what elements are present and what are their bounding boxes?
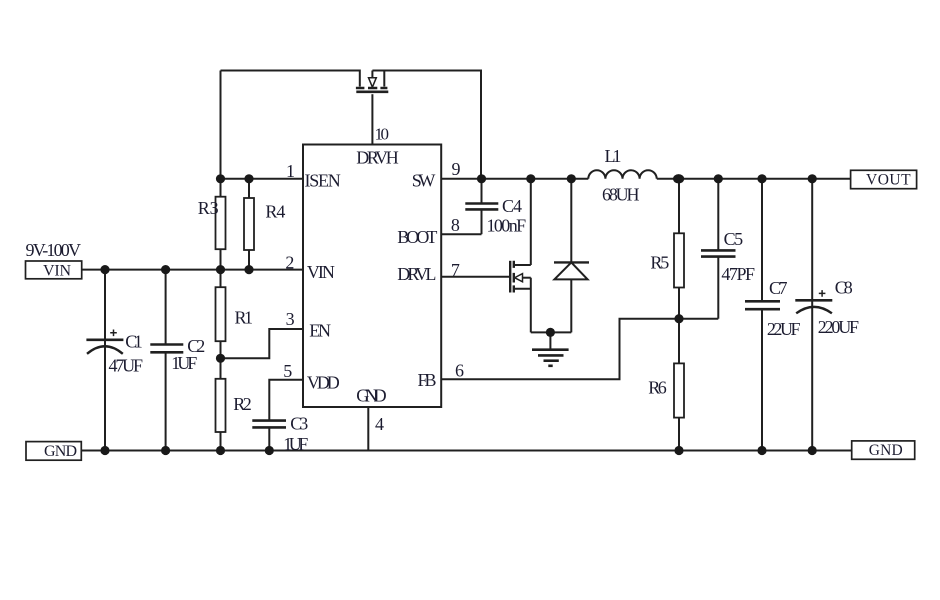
label: GND box right text (869, 442, 903, 459)
capacitor C8 electrolytic (795, 179, 832, 451)
label: R2 (233, 394, 252, 414)
svg-text:3: 3 (286, 309, 295, 329)
label: VDD (307, 372, 340, 392)
capacitor C7 (745, 179, 780, 451)
svg-text:47UF: 47UF (109, 356, 144, 376)
label: DRVH (356, 148, 399, 168)
resistor R3 (216, 179, 226, 270)
svg-text:R6: R6 (648, 377, 666, 397)
svg-text:C1: C1 (125, 332, 142, 352)
node: output rail junction dots (673, 174, 817, 183)
svg-text:1: 1 (286, 161, 295, 181)
resistor R6 (674, 319, 684, 451)
capacitor C2 (150, 270, 183, 451)
wire: GND pin 4 (367, 407, 369, 451)
wire: bottom GND rail (81, 450, 851, 452)
op-amp U1 IC body (303, 145, 441, 408)
resistor R1 (216, 270, 226, 358)
label: 9V-100V (26, 240, 82, 260)
diode D1 (554, 179, 589, 333)
label: GND box left text (44, 443, 77, 460)
VIN input box (26, 261, 82, 279)
label: R3 (198, 198, 219, 218)
svg-text:BOOT: BOOT (397, 227, 437, 247)
svg-text:47PF: 47PF (721, 264, 755, 284)
capacitor C5 (701, 179, 736, 319)
svg-text:DRVL: DRVL (397, 264, 436, 284)
svg-text:C5: C5 (724, 229, 744, 249)
label: L1 (605, 146, 622, 166)
svg-text:5: 5 (283, 361, 292, 381)
resistor R4 (244, 179, 254, 270)
label: ISEN (305, 170, 341, 190)
wire: vertical from top rail down to ISEN node (220, 71, 222, 179)
svg-text:220UF: 220UF (818, 317, 859, 337)
label: R1 (235, 308, 254, 328)
GND box right (852, 441, 915, 459)
label: C1 (125, 332, 142, 352)
svg-text:1UF: 1UF (171, 353, 197, 373)
label: GND pin (356, 385, 386, 405)
svg-text:9: 9 (452, 159, 461, 179)
GND box left (26, 442, 81, 461)
label: 47PF (721, 264, 755, 284)
svg-text:L1: L1 (605, 146, 622, 166)
wire: ISEN pin wire (221, 178, 304, 180)
label: pin 1 (286, 161, 295, 181)
label: VIN pin (307, 262, 335, 282)
svg-text:VIN: VIN (43, 262, 71, 279)
node: VIN rail junction dots (100, 265, 253, 274)
wire: top rail left from node A to Q1 drain (221, 71, 360, 87)
label: 1UF C2 (171, 353, 197, 373)
label: 68UH (602, 185, 640, 205)
wire: VDD pin route (269, 380, 303, 421)
label: EN (309, 321, 331, 341)
label: pin 7 (451, 260, 460, 280)
svg-text:7: 7 (451, 260, 460, 280)
label: pin 4 (375, 414, 384, 434)
wire: DRVL pin 7 to Q2 gate (441, 276, 510, 278)
label: C4 (502, 196, 522, 216)
wire: top rail right from Q1 source to SW node (372, 71, 481, 179)
ground (532, 332, 569, 365)
svg-text:VOUT: VOUT (866, 172, 911, 189)
capacitor C3 (252, 421, 286, 451)
label: pin 10 (375, 125, 390, 144)
svg-text:ISEN: ISEN (305, 170, 341, 190)
svg-text:R1: R1 (235, 308, 254, 328)
label: R5 (650, 253, 669, 273)
wire: BOOT pin 8 (441, 233, 481, 235)
svg-text:R4: R4 (265, 202, 285, 222)
svg-text:GND: GND (869, 442, 903, 459)
label: C3 (290, 414, 308, 434)
svg-text:DRVH: DRVH (356, 148, 399, 168)
svg-text:22UF: 22UF (767, 319, 801, 339)
label: VIN box text (43, 262, 71, 279)
transistor Q2 low-side MOSFET (510, 179, 531, 333)
svg-text:VIN: VIN (307, 262, 335, 282)
label: pin 6 (455, 360, 464, 380)
node: bottom rail junction dots (100, 446, 816, 455)
label: pin 3 (286, 309, 295, 329)
svg-text:R3: R3 (198, 198, 219, 218)
svg-text:C8: C8 (835, 278, 853, 298)
label: 220UF (818, 317, 859, 337)
VOUT box (851, 170, 917, 188)
inductor L1 (588, 170, 656, 179)
svg-text:68UH: 68UH (602, 185, 640, 205)
label: C2 (187, 336, 205, 356)
wire: VIN rail (82, 269, 303, 271)
label: FB (418, 370, 437, 390)
svg-text:100nF: 100nF (487, 215, 527, 235)
label: DRVL (397, 264, 436, 284)
svg-text:6: 6 (455, 360, 464, 380)
node: FB divider junction (674, 314, 683, 323)
wire: Q1 gate to DRVH pin 10 (371, 94, 373, 144)
svg-text:R2: R2 (233, 394, 252, 414)
label: pin 2 (285, 252, 294, 272)
svg-text:9V-100V: 9V-100V (26, 240, 82, 260)
node: ISEN junction dots (216, 174, 254, 183)
svg-text:VDD: VDD (307, 372, 340, 392)
label: 100nF (487, 215, 527, 235)
svg-text:GND: GND (44, 443, 77, 460)
label: C8 (835, 278, 853, 298)
wire: output rail to VOUT (657, 178, 851, 180)
wire: EN pin route (221, 329, 304, 358)
svg-text:EN: EN (309, 321, 331, 341)
label: pin 8 (451, 215, 460, 235)
label: 22UF (767, 319, 801, 339)
node: Q2 source ground junction (546, 328, 555, 337)
resistor R2 (216, 358, 226, 451)
svg-text:2: 2 (285, 252, 294, 272)
capacitor C4 (465, 179, 498, 234)
node: R1/R2 EN junction (216, 354, 225, 363)
svg-text:GND: GND (356, 385, 386, 405)
label: pin 9 (452, 159, 461, 179)
label: C5 (724, 229, 744, 249)
svg-text:1UF: 1UF (283, 434, 308, 454)
label: VOUT box text (866, 172, 911, 189)
svg-text:4: 4 (375, 414, 384, 434)
node: SW rail junction dots (477, 174, 576, 183)
svg-text:C7: C7 (769, 278, 788, 298)
svg-text:8: 8 (451, 215, 460, 235)
transistor Q1 high-side MOSFET (356, 71, 388, 92)
svg-text:FB: FB (418, 370, 437, 390)
wire: FB pin 6 route (441, 319, 718, 380)
label: R6 (648, 377, 666, 397)
resistor R5 (674, 179, 684, 319)
label: R4 (265, 202, 285, 222)
svg-text:C3: C3 (290, 414, 308, 434)
label: pin 5 (283, 361, 292, 381)
svg-text:SW: SW (412, 170, 436, 190)
svg-text:R5: R5 (650, 253, 669, 273)
label: 47UF (109, 356, 144, 376)
capacitor C1 electrolytic (86, 270, 123, 451)
wire: SW pin to C4/MOSFET/diode and L1 (441, 178, 588, 180)
svg-text:C4: C4 (502, 196, 522, 216)
wire: Q2 source / diode anode to ground (531, 331, 572, 333)
label: BOOT (397, 227, 437, 247)
svg-text:10: 10 (375, 125, 390, 144)
label: C7 (769, 278, 788, 298)
label: SW (412, 170, 436, 190)
label: 1UF C3 (283, 434, 308, 454)
